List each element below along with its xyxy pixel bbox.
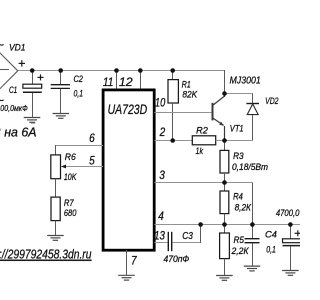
ground below C1 [24,118,41,123]
svg-text:11: 11 [103,75,114,89]
dash artifact above title [31,122,35,124]
ground below output cap [282,271,299,276]
wire R1 top [172,71,174,80]
wire C1 to rail [32,71,34,85]
ground below pin 7 [118,275,135,280]
wire pin 3 line [154,182,252,184]
svg-text:R7: R7 [64,198,75,208]
transistor VT1 [212,94,224,141]
svg-text:C4: C4 [265,228,277,239]
wire pin 12 [140,71,142,89]
svg-text:R6: R6 [65,152,77,163]
svg-text:VD1: VD1 [9,43,26,53]
svg-text:2,2К: 2,2К [231,246,250,256]
plus marker of VD1 [19,60,25,66]
wire pin 2 [154,140,192,142]
wire pin3 node to R4 [224,183,226,192]
node C2/rail [58,68,63,73]
svg-text:0,1: 0,1 [266,244,276,254]
svg-text:10K: 10K [64,172,77,182]
svg-text:82K: 82K [182,89,198,99]
wire collector to VD2 [225,93,254,95]
node output cap [288,222,293,227]
svg-text:C1: C1 [9,85,17,95]
svg-text:R1: R1 [182,79,191,89]
svg-text:470пФ: 470пФ [164,253,190,264]
svg-text:VT1: VT1 [230,123,244,133]
diode VD2 [246,103,259,105]
svg-text:~: ~ [0,37,4,52]
wire pin 10 to base [154,112,212,114]
ground below R5 [216,276,233,281]
wire sense line down to output rail and C4 [252,183,254,239]
node R1/rail [170,68,175,73]
wire output capacitor top [290,225,292,239]
wire emitter node to R3 [224,141,226,151]
ground below C2 [53,114,70,119]
capacitor C1 electrolytic [23,84,42,88]
ground below C4 [244,266,261,271]
svg-text:R2: R2 [196,125,208,135]
wire pin 5 [65,166,104,168]
wire R2 to emitter node [216,140,225,142]
svg-text:R5: R5 [234,235,245,245]
svg-text:0,18/5Вт: 0,18/5Вт [232,162,268,172]
wire C4 to ground [252,243,254,265]
resistor R4 [220,191,229,214]
IC U1 UA723D [103,90,154,250]
svg-text:00,0мкФ: 00,0мкФ [0,103,28,113]
capacitor C2 [51,85,70,89]
node R3/R4/pin3 [222,180,227,185]
resistor R3 [220,150,229,173]
plus marker of output cap [295,230,300,236]
svg-text:0,1: 0,1 [74,88,84,98]
svg-text:680: 680 [64,208,77,218]
capacitor C5 electrolytic 4700,0 [283,239,303,243]
resistor R7 [51,197,60,221]
node pin11/rail [114,68,119,73]
wire pin 13 to C3 [154,242,167,244]
svg-text:4: 4 [158,209,164,223]
svg-text:3: 3 [159,168,165,182]
wire R1 bottom to pin2 node [172,103,174,141]
svg-text:UA723D: UA723D [108,101,148,117]
wire main positive rail from bridge to collector [18,70,226,72]
resistor R5 [220,233,230,259]
svg-text:C3: C3 [182,231,193,242]
svg-text:R3: R3 [233,151,244,161]
node R1/pin2 [170,138,175,143]
wire C4 top [252,225,254,239]
wire R5 to ground [224,259,226,276]
plus marker of C1 [38,74,44,80]
wiper arrow of R6 [61,165,66,169]
node C1/rail [30,68,35,73]
emitter arrow head [219,122,224,126]
potentiometer R6 [51,155,61,179]
node collector [222,91,227,96]
wire R4 to output rail [224,214,226,225]
wire pin 7 [126,250,128,275]
wire output rail pin 4 [154,224,300,226]
wire R5 top [224,225,226,234]
capacitor C4 [245,239,260,243]
wire C3 to output rail [172,242,201,244]
wire VD2 to emitter node [252,115,254,141]
junction node dots [30,68,293,227]
svg-text:4700,0: 4700,0 [276,208,300,218]
capacitor C3 [168,232,171,251]
svg-text:12: 12 [119,75,133,89]
wire C1 to ground [32,93,34,117]
node emitter [222,138,227,143]
svg-text:1k: 1k [196,146,204,156]
svg-text:C2: C2 [74,73,84,84]
node C4/output [250,222,255,227]
wire R6 to R7 [55,179,57,197]
resistor R1 [168,80,178,103]
node C3/output [198,222,203,227]
svg-text:10: 10 [155,96,166,110]
wire output cap to ground [290,246,292,270]
svg-text:2: 2 [159,125,166,139]
svg-text:R4: R4 [233,192,243,202]
bridge rectifier VD1 [0,51,18,91]
wire R7 to ground [55,221,57,236]
svg-text:8,2К: 8,2К [235,202,252,212]
svg-text:13: 13 [154,229,165,243]
svg-text:5: 5 [89,154,95,168]
svg-text:://299792458.3dn.ru: ://299792458.3dn.ru [0,247,92,262]
resistor R2 [192,136,215,145]
node R4/R5/output [222,222,227,227]
svg-text:VD2: VD2 [265,96,279,107]
ground below R7 [47,236,64,241]
node pin12/rail [138,68,143,73]
wire pin 11 [116,71,118,89]
svg-text:6: 6 [89,131,95,145]
wire R3 to pin3 node [224,173,226,183]
wire pin 6 [55,145,103,147]
svg-text:MJ3001: MJ3001 [230,75,261,87]
svg-text:В на 6А: В на 6А [0,126,37,140]
wire C2 to ground [60,89,62,113]
wire C2 to rail [60,71,62,85]
